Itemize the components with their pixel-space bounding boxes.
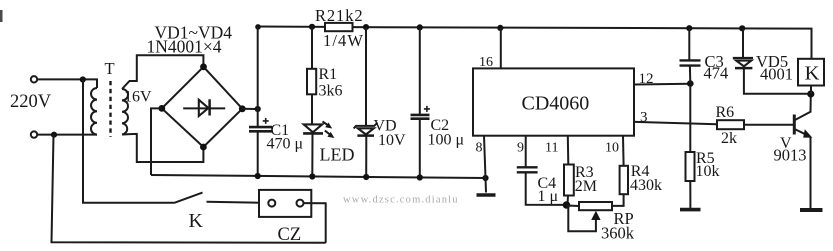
svg-text:2M: 2M — [575, 178, 597, 195]
wire relay to collector node — [810, 86, 812, 95]
wire top terminal to transformer primary — [37, 79, 97, 88]
terminal bottom 220V — [31, 131, 37, 137]
svg-text:430k: 430k — [630, 177, 662, 194]
bottom return wire — [52, 135, 326, 243]
wire VD to ground rail — [365, 136, 367, 177]
bridge corner dots — [200, 63, 207, 70]
capacitor C4 plates — [517, 166, 538, 168]
ground rail — [151, 175, 486, 178]
node C1 top — [255, 106, 261, 112]
resistor R2 body — [325, 23, 353, 31]
pin 9 wire — [525, 136, 527, 168]
switch K blade — [174, 193, 203, 203]
C2 plates — [411, 114, 430, 117]
svg-text:9013: 9013 — [774, 145, 807, 164]
relay K body — [798, 59, 824, 86]
wire 220V top to switch K — [83, 80, 174, 203]
ground rail node dots — [255, 173, 261, 179]
node collector — [807, 90, 814, 97]
node pin12/C3/R5 — [687, 80, 694, 87]
svg-text:T: T — [105, 59, 115, 78]
transformer T secondary winding — [122, 89, 128, 135]
LED cathode bar — [303, 132, 323, 135]
svg-text:R1: R1 — [319, 66, 338, 83]
pin 11 wire — [567, 136, 570, 165]
diode VD5 wire from rail — [742, 28, 744, 58]
wire bridge left corner to ground rail — [151, 108, 162, 175]
rail node dots — [309, 24, 315, 30]
capacitor C3 wire from rail — [688, 28, 690, 60]
svg-text:8: 8 — [476, 141, 483, 156]
capacitor C1 — [257, 27, 259, 128]
node junction top — [80, 76, 86, 82]
wire CZ right to bottom loop — [304, 203, 326, 243]
svg-text:K: K — [805, 62, 820, 84]
wire R4 to RP right — [612, 194, 624, 206]
ground symbol emitter — [800, 208, 823, 212]
CZ contact right — [297, 200, 304, 207]
ground symbol R5 — [680, 208, 701, 212]
potentiometer RP body — [579, 202, 612, 210]
wire R6 to base — [744, 124, 794, 126]
transistor V 9013 base bar — [793, 115, 796, 135]
scan edge mark — [0, 10, 3, 22]
svg-text:CD4060: CD4060 — [522, 93, 590, 115]
svg-text:4001: 4001 — [760, 65, 793, 84]
node junction bottom — [51, 132, 57, 138]
wire RP left to node — [567, 205, 580, 208]
VD5 cathode bar — [735, 67, 752, 70]
svg-text:220V: 220V — [10, 92, 52, 112]
svg-text:1/4W: 1/4W — [323, 31, 364, 50]
zener VD triangle — [358, 128, 374, 134]
wire switch to CZ — [207, 202, 269, 203]
svg-text:www.dzsc.com.dianlu: www.dzsc.com.dianlu — [343, 195, 459, 206]
wire R3 to node — [567, 196, 570, 206]
svg-text:470 μ: 470 μ — [267, 136, 304, 153]
svg-text:3: 3 — [640, 110, 648, 126]
terminal top 220V — [31, 76, 37, 82]
wire bridge right corner to C1 node — [242, 108, 257, 110]
transistor emitter — [795, 129, 808, 135]
svg-text:R21k2: R21k2 — [315, 6, 364, 25]
wire R5 to ground — [689, 181, 691, 208]
C3 plates — [680, 59, 701, 61]
ground symbol pin8 — [477, 193, 496, 197]
transformer T primary winding — [91, 88, 97, 135]
resistor R1 body — [307, 69, 316, 95]
svg-text:3k6: 3k6 — [319, 83, 343, 100]
svg-text:100 μ: 100 μ — [428, 132, 465, 149]
wire R1 to LED — [311, 94, 313, 124]
zener VD top bar — [354, 123, 378, 129]
LED arrows — [323, 122, 329, 126]
pin 8 wire to ground — [484, 136, 486, 193]
C2 plus sign — [424, 106, 430, 112]
wire secondary bottom to bridge bottom — [122, 134, 203, 162]
resistor R1 branch wire — [311, 27, 313, 69]
CZ contact left — [268, 200, 275, 207]
VD5 top bar — [733, 57, 753, 59]
svg-text:2k: 2k — [721, 130, 737, 147]
svg-text:360k: 360k — [601, 224, 635, 243]
svg-text:K: K — [189, 210, 204, 232]
wire LED to ground rail — [311, 133, 313, 176]
IC CD4060 body — [473, 68, 634, 135]
resistor R4 body — [620, 166, 628, 194]
svg-text:11: 11 — [545, 141, 558, 156]
resistor R3 body — [564, 165, 574, 196]
wire emitter to ground — [810, 137, 812, 209]
wire C4 to node — [526, 172, 568, 205]
pin 12 wire — [634, 83, 690, 86]
resistor R5 body — [686, 152, 695, 181]
svg-text:LED: LED — [320, 145, 355, 165]
resistor R6 body — [717, 120, 744, 129]
top V+ rail left segment — [258, 26, 325, 28]
wire C2 to ground rail — [419, 119, 421, 178]
zener VD cathode bar — [357, 134, 374, 137]
svg-text:16V: 16V — [124, 89, 152, 106]
svg-text:474: 474 — [704, 64, 729, 83]
svg-text:10: 10 — [605, 141, 619, 156]
svg-text:16: 16 — [479, 55, 493, 70]
socket CZ body — [259, 190, 311, 217]
node RC — [563, 201, 571, 209]
wire node to R5 — [689, 84, 691, 152]
wire secondary top to bridge top — [122, 55, 203, 89]
top V+ rail right segment — [353, 27, 812, 59]
svg-text:1 μ: 1 μ — [538, 188, 559, 205]
wire bottom terminal to transformer primary — [37, 134, 97, 136]
svg-text:10k: 10k — [696, 163, 720, 180]
svg-text:1N4001×4: 1N4001×4 — [147, 37, 222, 57]
svg-text:9: 9 — [517, 141, 524, 156]
zener VD wire from rail — [365, 27, 367, 126]
pin 10 wire — [622, 136, 625, 166]
LED triangle — [304, 124, 323, 132]
svg-text:R6: R6 — [716, 104, 735, 121]
wire VD5 to collector node — [744, 68, 811, 94]
bridge rectifier VD1-VD4 diamond — [162, 67, 243, 147]
wire C3 to node — [689, 66, 691, 84]
svg-text:12: 12 — [639, 71, 654, 87]
VD5 triangle — [736, 61, 751, 67]
capacitor C2 wire from rail — [419, 27, 421, 114]
pin 16 wire — [500, 28, 502, 69]
C1 plus sign — [263, 118, 269, 124]
transistor collector — [795, 94, 811, 120]
pin 3 wire — [634, 122, 717, 125]
svg-text:10V: 10V — [378, 132, 406, 149]
transformer core — [109, 81, 111, 137]
RP wiper arrow — [591, 211, 600, 220]
bridge inner diode — [183, 107, 225, 109]
